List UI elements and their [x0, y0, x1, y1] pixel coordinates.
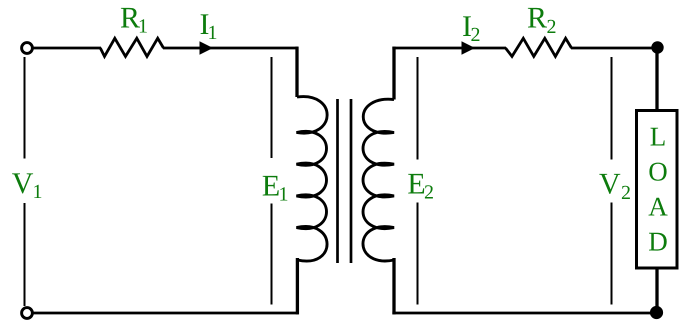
wire source-left vertical thin line (upper segment)	[24, 57, 26, 159]
terminal T2 (bottom-left open circle)	[22, 308, 33, 319]
node junction dot (bottom-right)	[650, 306, 663, 319]
voltage marker line V2 (upper segment)	[611, 57, 613, 160]
wire secondary-bottom vertical	[392, 258, 395, 314]
voltage marker line E2 (upper segment)	[417, 57, 419, 160]
wire secondary-top vertical	[392, 47, 395, 100]
wire primary-bottom vertical	[296, 258, 299, 314]
voltage marker line E1 (lower segment)	[271, 204, 273, 305]
label R1	[121, 8, 147, 33]
wire bottom-right horizontal	[392, 312, 657, 315]
wire load-top	[655, 48, 658, 110]
wire load-bottom	[655, 268, 658, 313]
wire bottom-left horizontal	[33, 312, 299, 315]
label V2	[599, 174, 630, 199]
resistor R1 (zigzag body)	[100, 38, 163, 56]
arrow I1 (current direction)	[200, 41, 214, 55]
resistor R2 (zigzag body)	[506, 38, 572, 56]
load box outline	[637, 111, 678, 269]
wire R2 to load node	[571, 47, 657, 50]
label E2	[408, 174, 433, 199]
voltage marker line V2 (lower segment)	[611, 203, 613, 305]
label V1	[12, 173, 41, 198]
label R2	[528, 8, 556, 33]
wire R1 to primary top corner	[163, 47, 298, 50]
wire source-left vertical thin line (lower segment)	[24, 203, 26, 306]
arrow I2 (current direction)	[462, 41, 476, 55]
terminal T1 (top-left open circle)	[22, 43, 33, 54]
label E1	[263, 176, 288, 201]
voltage marker line E2 (lower segment)	[417, 203, 419, 305]
wire secondary top corner to R2	[392, 47, 506, 50]
node junction dot (top-right)	[651, 41, 663, 53]
wire top-left (terminal T1 to R1)	[33, 47, 101, 50]
wire primary-top vertical	[295, 47, 298, 97]
transformer core line (right)	[350, 99, 353, 263]
inductor L2 (transformer secondary winding, 5 loops)	[363, 99, 394, 261]
voltage marker line E1 (upper segment)	[271, 57, 273, 158]
label I2	[463, 16, 479, 41]
label I1	[201, 14, 217, 39]
inductor L1 (transformer primary winding, 5 loops)	[297, 97, 328, 262]
label LOAD	[649, 128, 668, 251]
transformer core line (left)	[336, 99, 339, 263]
